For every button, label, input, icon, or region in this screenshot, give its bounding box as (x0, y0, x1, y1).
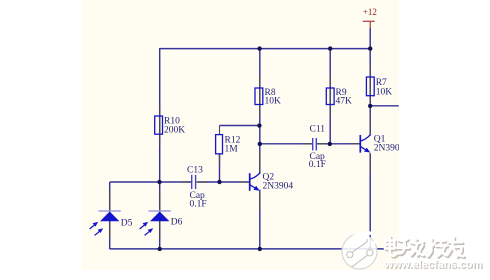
wire +12 to R7 column (369, 28, 371, 136)
resistor R10 (155, 104, 186, 147)
svg-text:10K: 10K (265, 97, 282, 107)
transistor Q1 (350, 113, 405, 173)
svg-text:0.1F: 0.1F (190, 200, 207, 210)
junction bottom rail at Q1 (368, 247, 372, 251)
watermark url www.elecfans.com (383, 259, 483, 272)
wire R7 output horizontal (370, 105, 399, 107)
svg-text:2N3904: 2N3904 (263, 182, 294, 192)
svg-text:C13: C13 (187, 166, 203, 176)
junction bottom rail at D6 (158, 247, 162, 251)
svg-text:0.1F: 0.1F (309, 160, 326, 170)
svg-text:2N3904: 2N3904 (374, 144, 405, 154)
wire left column R10 vertical (159, 48, 161, 182)
wire D5 column (109, 182, 111, 249)
junction C13 left (157, 180, 161, 184)
wire C11 right to Q1 base (317, 143, 360, 145)
svg-text:R7: R7 (376, 78, 387, 88)
wire R12 bottom pin (219, 154, 221, 166)
svg-text:D5: D5 (121, 218, 133, 228)
wire R12 top pin (219, 126, 221, 135)
junction C11 right at R9 (328, 142, 332, 146)
junction top rail at R9 (328, 46, 332, 50)
wire C13 left horizontal (110, 181, 193, 183)
svg-text:47K: 47K (336, 97, 353, 107)
junction C11 left (258, 142, 262, 146)
watermark logo circle (342, 232, 377, 269)
svg-text:1M: 1M (225, 144, 239, 154)
junction R12 top (257, 123, 261, 127)
wire R9 column (329, 48, 331, 144)
resistor R7 (366, 65, 392, 106)
svg-text:D6: D6 (171, 217, 183, 227)
wire R8 Q2 column (259, 48, 261, 174)
LED D6 (140, 191, 183, 239)
resistor R12 (216, 135, 241, 155)
resistor R8 (255, 76, 281, 117)
wire R12 bottom vertical (219, 154, 221, 182)
wire C11 left horizontal (260, 143, 312, 145)
junction bottom rail at Q2 (258, 247, 262, 251)
wire C13 right to Q2 base (198, 181, 249, 183)
wire Q2 emitter vertical (259, 190, 261, 249)
wire D6 column lower (159, 182, 161, 249)
svg-text:www.elecfans.com: www.elecfans.com (383, 259, 482, 271)
wire top rail (160, 48, 371, 50)
power +12 (363, 7, 377, 29)
capacitor C13 (182, 166, 207, 210)
junction R7 output (368, 104, 372, 108)
svg-text:C11: C11 (310, 124, 326, 134)
junction C13 right at R12 (217, 180, 221, 184)
transistor Q2 (240, 151, 294, 211)
svg-text:200K: 200K (164, 125, 185, 135)
capacitor C11 (303, 124, 328, 170)
wire Q1 emitter vertical (369, 154, 371, 249)
watermark text 电子发烧友 (385, 236, 465, 258)
wire R12 top horizontal (220, 125, 260, 127)
LED D5 (90, 191, 133, 239)
wire bottom rail (110, 248, 399, 250)
junction top rail at +12 (368, 46, 372, 50)
junction top rail at R8 (257, 46, 261, 50)
svg-text:10K: 10K (376, 88, 393, 98)
svg-text:+12: +12 (363, 7, 377, 17)
resistor R9 (326, 76, 352, 117)
